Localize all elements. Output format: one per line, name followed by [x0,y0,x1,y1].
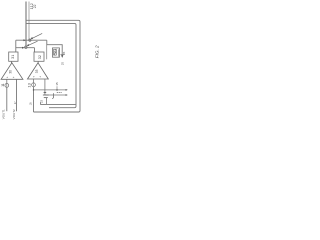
wire I2 down to outer bottom [33,87,35,112]
wire R1 to op-amp U1 [10,61,12,63]
svg-text:22: 22 [33,4,37,8]
svg-text:32: 32 [38,55,42,59]
svg-text:+: + [13,75,15,79]
transistor box M1 [53,48,60,57]
wire inner loop [26,23,76,107]
svg-text:+: + [39,75,41,79]
arrow down at transistor box [61,55,63,58]
junction dot at I2 branch [33,89,35,91]
wire U1 - input down / VOUT2 terminal [16,79,18,111]
wire rail V1 [25,2,27,47]
wire signal arrow from cap node [45,94,67,96]
wire U1 + input down [6,79,8,83]
wire upper node to mirror box [47,40,62,56]
wire U2 + input down [33,79,35,83]
callout 16 dashes [57,92,62,94]
switch arrow at node A [32,33,43,38]
junction dot on arrow wire [56,89,58,91]
svg-text:30: 30 [8,70,12,74]
resistor R2 box [34,52,44,61]
node A upper junction circle [29,39,31,41]
svg-text:13: 13 [26,82,31,87]
callout 15 lead [56,86,58,89]
svg-text:FIG. 2: FIG. 2 [94,45,99,58]
wire outer loop [26,20,80,112]
op-amp U2 triangle [28,63,49,79]
wire R2 to op-amp U2 [37,61,39,63]
wire cap bottom lead [46,98,48,105]
wire VOUT1 terminal [6,87,8,111]
transistor body hatched [54,49,57,55]
svg-text:15: 15 [55,82,59,86]
callout 16 stub with hook [52,93,53,98]
svg-text:31: 31 [11,55,15,59]
node B lower junction circle [25,46,27,48]
svg-text:26: 26 [62,51,66,55]
current source I2 circle [32,83,36,87]
svg-text:11: 11 [1,83,5,87]
tick on arrow line [60,54,64,56]
wire signal arrow from I2 node [34,89,67,91]
svg-text:VOUT1: VOUT1 [1,109,5,119]
wire stub down from step [46,45,48,60]
wire upper junction horizontal [16,39,47,41]
svg-text:33: 33 [35,69,39,73]
capacitor C1 top plate [43,94,49,96]
wire left L down to resistor [15,40,17,52]
svg-text:23: 23 [40,99,44,103]
wire down to right resistor [34,48,36,52]
wire rail V2 [28,2,30,40]
arrow on upper junction wire [23,39,25,41]
switch arrow at node B [28,41,38,45]
current source I1 circle [5,84,9,88]
wire U2 - input down to capacitor [44,79,46,95]
svg-text:+: + [6,75,8,79]
op-amp U1 triangle [1,63,23,80]
svg-text:+: + [33,75,35,79]
junction dash on cap lead [44,91,47,93]
resistor R1 box [9,52,18,61]
wire lower junction horizontal [16,47,35,49]
wire capacitor node horizontal [41,102,76,104]
svg-text:VOUT2: VOUT2 [12,109,16,119]
transistor inner line [57,49,59,56]
capacitor C1 bottom plate [44,97,48,99]
arrow on lower junction wire [22,47,24,49]
svg-text:25: 25 [61,62,65,66]
